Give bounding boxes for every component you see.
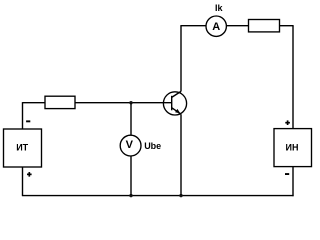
wire emitter down: [180, 114, 182, 195]
svg-text:Ube: Ube: [144, 141, 161, 151]
wire top: [180, 25, 206, 27]
svg-text:ИТ: ИТ: [16, 142, 28, 152]
load IN box: [274, 129, 312, 167]
plus sign at IT: [27, 172, 32, 177]
wire right: [292, 26, 294, 129]
wire collector up: [180, 26, 182, 92]
wire: [22, 167, 24, 196]
wire: [130, 156, 132, 196]
svg-text:Ik: Ik: [215, 3, 224, 13]
plus sign at IN: [285, 120, 290, 125]
voltmeter V: [120, 135, 141, 156]
svg-text:ИН: ИН: [286, 143, 299, 153]
resistor R2: [249, 20, 280, 32]
transistor Q1: [163, 91, 186, 115]
minus sign at IT: [26, 120, 30, 122]
node voltmeter bottom dot: [129, 194, 132, 197]
wire: [280, 25, 294, 27]
node base junction dot: [129, 101, 132, 104]
wire: [22, 102, 24, 129]
node emitter bottom dot: [179, 194, 182, 197]
source IT box: [4, 129, 42, 167]
wire: [23, 102, 46, 104]
wire: [130, 103, 132, 136]
resistor R1: [45, 96, 75, 108]
wire: [292, 167, 294, 197]
wire: [75, 102, 172, 104]
minus sign at IN: [285, 173, 289, 175]
ammeter A: [206, 16, 226, 36]
wire bottom: [22, 195, 294, 197]
svg-text:A: A: [212, 21, 220, 33]
svg-text:V: V: [126, 139, 134, 151]
wire: [226, 25, 248, 27]
